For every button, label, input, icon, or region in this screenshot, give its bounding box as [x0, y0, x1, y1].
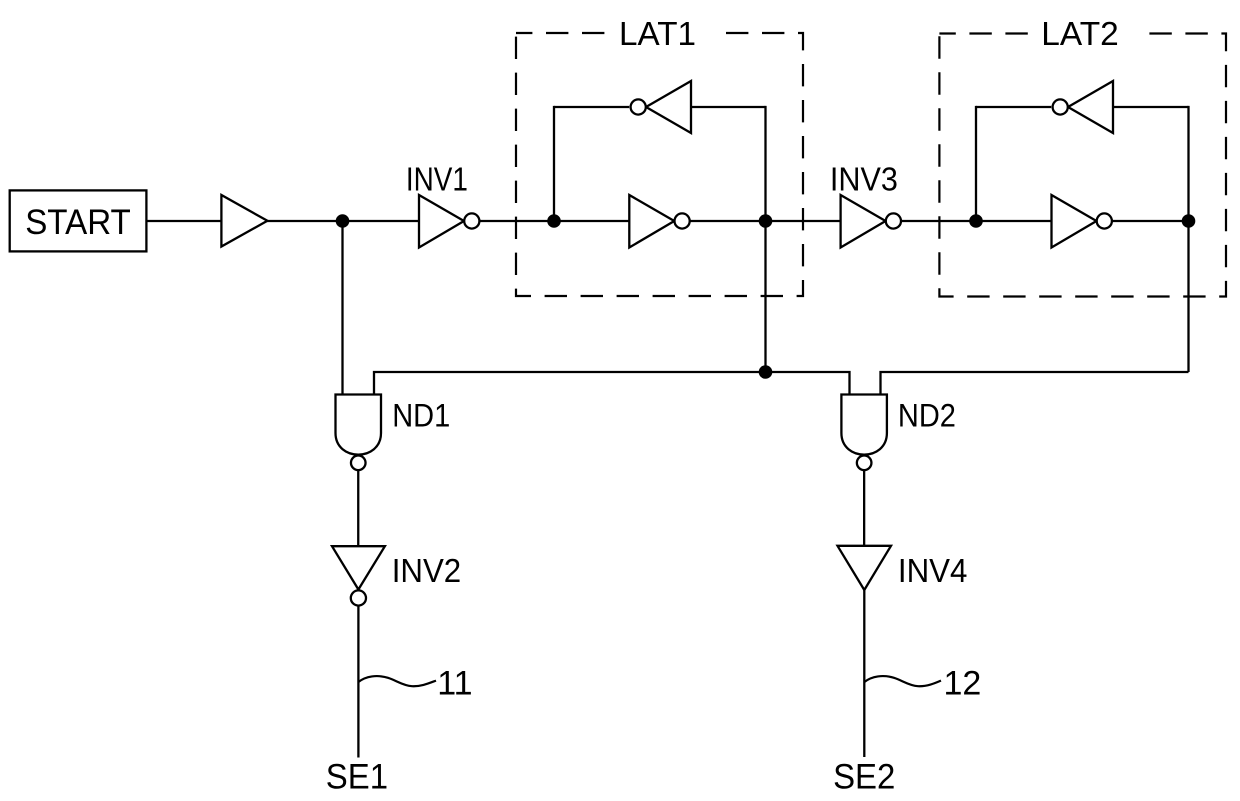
label SE1	[326, 757, 388, 796]
svg-text:12: 12	[944, 665, 982, 703]
node bus junction	[759, 365, 773, 379]
svg-text:ND2: ND2	[898, 398, 956, 434]
svg-text:ND1: ND1	[392, 398, 450, 434]
wire INV4 output down to SE2	[863, 590, 865, 757]
inverter INV2 (points down)	[332, 546, 385, 605]
svg-text:LAT1: LAT1	[619, 15, 696, 52]
svg-text:SE2: SE2	[833, 757, 895, 796]
nand gate ND1	[336, 395, 382, 471]
label INV4	[898, 552, 968, 589]
buffer after START	[221, 195, 267, 247]
LAT1 forward inverter	[629, 195, 689, 248]
reference squiggle 11	[358, 665, 472, 703]
label LAT1	[617, 15, 714, 52]
inverter INV1	[419, 195, 479, 248]
latch box LAT1 (dashed)	[516, 33, 803, 296]
inverter INV3	[841, 195, 901, 248]
svg-text:INV3: INV3	[830, 161, 898, 198]
nand gate ND2	[841, 395, 887, 471]
wire LAT1 left feedback vertical	[553, 106, 555, 221]
label INV2	[392, 552, 462, 589]
reference squiggle 12	[864, 665, 981, 703]
label ND2	[898, 398, 956, 434]
node LAT1 output junction	[759, 214, 773, 228]
wire bus left segment to ND1 and ND2 inputs	[374, 372, 850, 395]
label INV1	[406, 161, 468, 198]
wire junction vertical to ND1 left input	[341, 221, 343, 395]
wire main horizontal line	[146, 220, 1188, 222]
wire ND1 output to INV2	[357, 470, 359, 546]
wire INV2 output down to SE1	[357, 606, 359, 758]
wire LAT1 right vertical down to bus	[764, 106, 766, 372]
svg-text:LAT2: LAT2	[1041, 15, 1119, 52]
svg-text:INV1: INV1	[406, 161, 468, 198]
label ND1	[392, 398, 450, 434]
wire LAT2 right vertical down to bus	[1187, 106, 1189, 372]
LAT2 feedback inverter (points left)	[1053, 81, 1113, 133]
wire LAT2 feedback top	[976, 106, 1189, 108]
latch box LAT2 (dashed)	[939, 34, 1226, 297]
wire LAT2 left feedback vertical	[975, 106, 977, 221]
svg-text:INV4: INV4	[898, 552, 968, 589]
svg-text:START: START	[25, 203, 131, 242]
START box	[10, 190, 147, 251]
node LAT2 output junction	[1182, 214, 1196, 228]
wire LAT1 feedback top	[554, 106, 766, 108]
node junction after buffer	[336, 214, 350, 228]
LAT2 forward inverter	[1052, 195, 1112, 248]
label INV3	[830, 161, 898, 198]
node LAT2 input junction	[969, 214, 983, 228]
svg-text:SE1: SE1	[326, 757, 388, 796]
inverter INV4 (points down, no bubble)	[838, 546, 892, 590]
LAT1 feedback inverter (points left)	[631, 81, 691, 133]
label SE2	[833, 757, 895, 796]
label LAT2	[1040, 15, 1137, 52]
svg-text:11: 11	[437, 665, 472, 703]
wire bus right segment from LAT2 output to ND2 right input	[881, 372, 1189, 395]
node LAT1 input junction	[547, 214, 561, 228]
wire ND2 output to INV4	[863, 470, 865, 546]
svg-text:INV2: INV2	[392, 552, 462, 589]
